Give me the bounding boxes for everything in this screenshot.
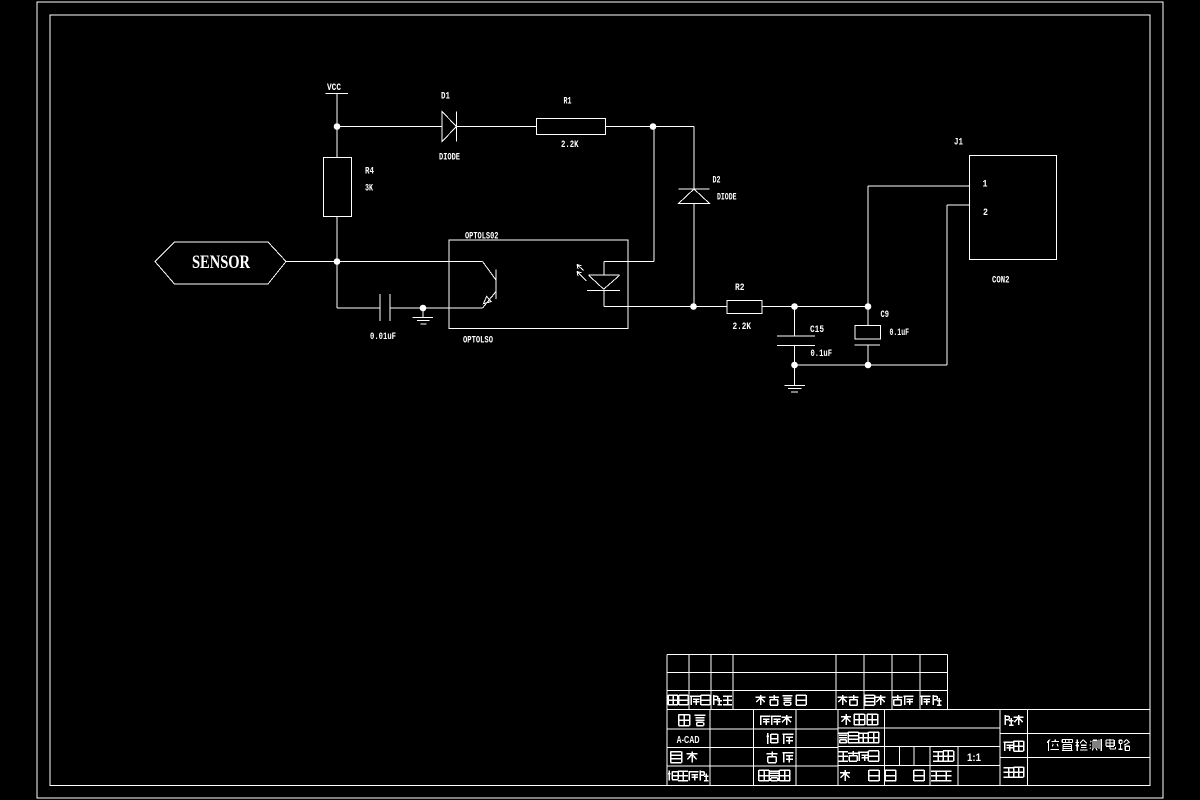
connector J1 <box>970 156 1057 260</box>
wire ground rail to J1 pin2 <box>795 364 948 366</box>
title name 位置检测电路 <box>1047 740 1059 751</box>
svg-text:2.2K: 2.2K <box>561 140 579 151</box>
svg-text:C15: C15 <box>810 325 824 336</box>
svg-text:SENSOR: SENSOR <box>192 252 250 273</box>
title block right section texts <box>1005 715 1014 725</box>
svg-text:1: 1 <box>983 180 988 191</box>
wire node D corner to C4 <box>337 307 380 309</box>
svg-text:2.2K: 2.2K <box>733 322 752 333</box>
wire node A to D1 <box>337 126 442 128</box>
wire R2 to node F <box>762 306 868 308</box>
node E junction <box>420 305 427 312</box>
node B junction <box>650 123 657 130</box>
title block right section grid <box>1000 733 1150 735</box>
op-amp U1 optocoupler box <box>449 240 628 329</box>
svg-text:D1: D1 <box>441 92 450 103</box>
svg-text:R4: R4 <box>365 167 374 178</box>
title block revision header texts <box>668 695 678 705</box>
title block middle section texts <box>841 714 851 725</box>
capacitor C9 polarized <box>855 326 881 340</box>
svg-text:0.01uF: 0.01uF <box>370 332 396 343</box>
svg-text:0.1uF: 0.1uF <box>811 349 833 360</box>
port SENSOR <box>155 242 286 284</box>
node D junction (SENSOR) <box>334 258 341 265</box>
title block middle section grid <box>838 727 1000 729</box>
svg-text:1:1: 1:1 <box>967 752 981 764</box>
LED D3 inside opto <box>603 262 605 276</box>
wire D2 to node C <box>693 204 695 307</box>
capacitor 0.01uF <box>379 294 381 321</box>
wire SENSOR to node D <box>286 261 337 263</box>
svg-text:OPTOLSO: OPTOLSO <box>463 336 493 347</box>
ground GND2 <box>794 365 796 386</box>
svg-text:0.1uF: 0.1uF <box>890 328 910 339</box>
node C junction <box>690 303 697 310</box>
node A junction <box>334 123 341 130</box>
wire C4 to node E <box>390 307 423 309</box>
capacitor C15 <box>777 335 815 337</box>
title block left section texts <box>679 715 690 726</box>
svg-text:J1: J1 <box>954 138 963 149</box>
diode D1 <box>442 112 457 142</box>
power VCC bar <box>326 93 349 95</box>
node F junction <box>791 303 798 310</box>
wire node E to opto emitter <box>423 307 483 309</box>
wire node F to C15 <box>794 307 796 337</box>
title block left section grid <box>667 728 838 730</box>
wire C15 to node H <box>794 345 796 365</box>
wire D1 to R1 <box>457 126 537 128</box>
svg-text:3K: 3K <box>365 184 373 195</box>
LED arrows <box>577 265 587 282</box>
wire C9 to node I <box>867 345 869 365</box>
node H junction <box>791 362 798 369</box>
title block revision table grid <box>667 654 948 656</box>
svg-text:VCC: VCC <box>327 83 341 94</box>
wire node B down to LED net <box>653 127 655 262</box>
node I junction <box>865 362 872 369</box>
node G junction <box>865 303 872 310</box>
svg-text:D2: D2 <box>713 176 721 187</box>
wire R1 to node B and corner <box>606 126 695 128</box>
svg-text:R2: R2 <box>735 283 745 294</box>
ground GND1 <box>422 308 424 318</box>
resistor R4 <box>324 158 352 217</box>
transistor Q1 phototransistor <box>483 262 497 281</box>
svg-text:2: 2 <box>983 208 988 219</box>
svg-text:R1: R1 <box>564 97 572 108</box>
resistor R2 <box>727 301 762 314</box>
wire node C to R2 <box>694 306 728 308</box>
wire LED to node C <box>604 306 694 308</box>
wire VCC to node A <box>336 94 338 158</box>
svg-text:DIODE: DIODE <box>717 193 737 204</box>
svg-text:C9: C9 <box>881 310 890 321</box>
svg-text:CON2: CON2 <box>992 276 1010 287</box>
diode D2 <box>679 188 710 190</box>
svg-text:A-CAD: A-CAD <box>677 735 700 746</box>
svg-text:OPTOLS02: OPTOLS02 <box>465 232 499 243</box>
wire node G to C9 <box>867 307 869 326</box>
wire R4 to node D <box>336 217 338 309</box>
wire corner down to D2 <box>693 127 695 190</box>
wire node D to opto base <box>337 261 483 263</box>
wire node G up to J1 pin1 <box>867 186 869 307</box>
resistor R1 <box>537 119 606 135</box>
svg-text:DIODE: DIODE <box>439 153 460 164</box>
